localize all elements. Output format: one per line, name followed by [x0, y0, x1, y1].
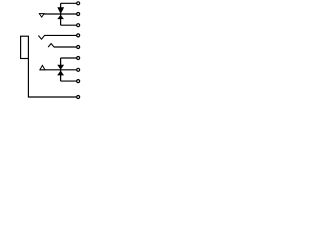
wire row1: [61, 2, 77, 4]
wire changeover contact K1 spring (vertical): [60, 3, 62, 25]
wire from relay coil down to row9: [28, 59, 76, 98]
terminal 3: [77, 24, 80, 27]
wire row8: [61, 80, 77, 82]
wire changeover contact K2 spring (vertical): [60, 58, 62, 81]
make contact a5 on row5 (open chevron above line): [48, 44, 54, 48]
terminal 1: [77, 2, 80, 5]
terminal 2: [77, 13, 80, 16]
wire row7: [40, 69, 77, 71]
wire row3: [61, 24, 77, 26]
make contact a4 on row4 (open chevron below line): [38, 36, 44, 40]
wire row4: [44, 34, 76, 36]
relay coil R1: [21, 36, 29, 58]
break contact b2 on row2 (filled triangle below line): [39, 14, 44, 18]
terminal 5: [77, 46, 80, 49]
make contact a7 on row7 (open triangle above line): [40, 65, 45, 69]
background: [0, 0, 100, 100]
contact K2 make triangle (filled, below row7): [57, 71, 64, 76]
contact K1 break triangle (filled, above row2): [57, 7, 64, 14]
wire row5: [54, 46, 77, 48]
terminal 9: [77, 96, 80, 99]
wire row2: [39, 13, 76, 15]
terminal 7: [77, 68, 80, 71]
terminal 6: [77, 57, 80, 60]
wire row6: [61, 57, 77, 59]
terminal 4: [77, 34, 80, 37]
terminal 8: [77, 80, 80, 83]
contact K1 make triangle (filled, below row2): [57, 15, 64, 19]
contact K2 break triangle (filled, above row7): [57, 65, 64, 70]
